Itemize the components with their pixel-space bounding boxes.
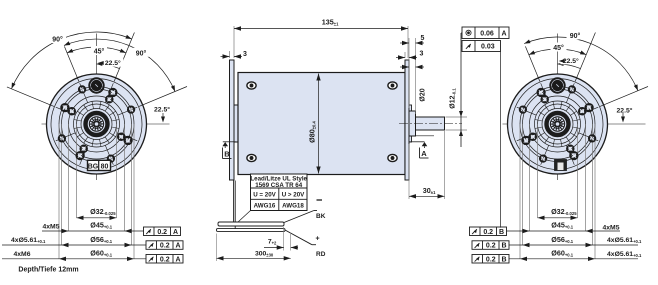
svg-text:1569 CSA TR 64: 1569 CSA TR 64 bbox=[255, 182, 302, 189]
svg-text:4xØ5.61+0.1: 4xØ5.61+0.1 bbox=[607, 237, 642, 244]
svg-text:0.2: 0.2 bbox=[160, 256, 170, 263]
svg-text:80: 80 bbox=[101, 163, 109, 170]
svg-text:A: A bbox=[421, 149, 427, 158]
svg-text:B: B bbox=[501, 256, 506, 263]
svg-text:3: 3 bbox=[420, 51, 424, 58]
svg-text:0.2: 0.2 bbox=[160, 243, 170, 250]
svg-text:22.5°: 22.5° bbox=[563, 57, 579, 65]
svg-text:A: A bbox=[173, 229, 178, 236]
svg-text:5: 5 bbox=[421, 35, 425, 42]
svg-text:U > 20V: U > 20V bbox=[282, 192, 305, 199]
svg-text:B: B bbox=[501, 243, 506, 250]
svg-text:BK: BK bbox=[316, 213, 326, 220]
svg-text:7+2: 7+2 bbox=[268, 239, 277, 246]
svg-text:B: B bbox=[499, 229, 504, 236]
svg-text:0.2: 0.2 bbox=[157, 229, 167, 236]
svg-text:0.03: 0.03 bbox=[481, 44, 495, 51]
svg-text:BG: BG bbox=[88, 163, 99, 170]
svg-text:B: B bbox=[224, 150, 230, 159]
svg-text:90°: 90° bbox=[52, 36, 63, 44]
svg-text:45°: 45° bbox=[94, 48, 105, 56]
svg-text:+: + bbox=[316, 236, 320, 243]
svg-text:0.2: 0.2 bbox=[486, 243, 496, 250]
svg-text:0.2: 0.2 bbox=[483, 229, 493, 236]
svg-text:AWG16: AWG16 bbox=[254, 203, 276, 210]
svg-text:4xM6: 4xM6 bbox=[13, 251, 30, 258]
svg-text:4xM5: 4xM5 bbox=[602, 225, 619, 232]
svg-text:4xØ5.61+0.1: 4xØ5.61+0.1 bbox=[11, 237, 46, 244]
svg-text:22.5°: 22.5° bbox=[154, 106, 170, 114]
svg-text:22.5°: 22.5° bbox=[105, 59, 121, 67]
svg-text:RD: RD bbox=[316, 251, 326, 258]
svg-text:3: 3 bbox=[243, 51, 247, 58]
svg-text:A: A bbox=[175, 256, 180, 263]
svg-text:Ø12-0.1: Ø12-0.1 bbox=[450, 88, 457, 109]
svg-text:A: A bbox=[501, 30, 506, 37]
svg-text:22.5°: 22.5° bbox=[617, 107, 633, 115]
svg-text:A: A bbox=[175, 243, 180, 250]
svg-text:Depth/Tiefe 12mm: Depth/Tiefe 12mm bbox=[18, 267, 78, 274]
svg-text:U = 20V: U = 20V bbox=[253, 192, 276, 199]
svg-text:4xM5: 4xM5 bbox=[42, 224, 59, 231]
svg-text:4xØ5.61+0.1: 4xØ5.61+0.1 bbox=[607, 251, 642, 258]
svg-text:90°: 90° bbox=[570, 32, 581, 40]
svg-text:90°: 90° bbox=[136, 49, 147, 57]
svg-text:0.2: 0.2 bbox=[486, 256, 496, 263]
svg-text:0.06: 0.06 bbox=[480, 30, 494, 37]
svg-text:45°: 45° bbox=[553, 44, 564, 52]
svg-text:AWG18: AWG18 bbox=[282, 203, 304, 210]
svg-text:300±30: 300±30 bbox=[255, 251, 274, 258]
svg-text:Ø20: Ø20 bbox=[420, 88, 427, 101]
